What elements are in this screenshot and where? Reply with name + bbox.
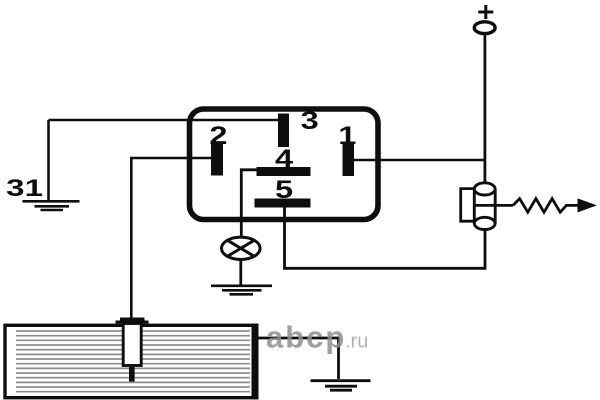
return spring xyxy=(513,199,579,213)
svg-text:3: 3 xyxy=(301,107,319,135)
relay K body xyxy=(190,109,379,220)
svg-text:5: 5 xyxy=(275,177,293,205)
wire pin 5 to actuator xyxy=(285,207,486,268)
svg-text:2: 2 xyxy=(209,122,227,150)
battery plus sign xyxy=(478,5,493,19)
tank hatching xyxy=(16,331,250,392)
wire tank to ground xyxy=(259,338,339,379)
actuator yoke bracket xyxy=(461,189,474,222)
pin 3 xyxy=(278,114,289,148)
svg-text:4: 4 xyxy=(275,145,293,173)
svg-text:.ru: .ru xyxy=(345,331,368,353)
wire lamp to ground xyxy=(239,260,242,285)
ground G3 xyxy=(311,381,371,391)
wire pin 2 to tank sender xyxy=(131,158,211,318)
svg-text:1: 1 xyxy=(338,122,356,150)
ground G1 xyxy=(23,201,80,210)
svg-text:abcp: abcp xyxy=(266,320,346,355)
wire 31 to pin 3 xyxy=(49,120,280,200)
wire pin 4 to lamp xyxy=(241,170,256,237)
ground G2 xyxy=(211,286,272,295)
pin 4 xyxy=(257,167,311,176)
pin 1 xyxy=(343,143,355,177)
actuator plunger wire xyxy=(475,204,514,207)
sender flange xyxy=(116,319,149,322)
sender body xyxy=(123,324,141,366)
pin 2 xyxy=(211,143,223,176)
fuel tank body xyxy=(5,325,257,397)
tank right wall xyxy=(252,324,259,400)
pin 5 xyxy=(255,199,311,208)
watermark abcp.ru xyxy=(266,320,368,355)
lamp H1 xyxy=(222,237,261,259)
sender tip xyxy=(129,367,135,382)
wire pin 1 to battery node xyxy=(354,159,485,162)
wire battery to actuator xyxy=(483,34,486,183)
svg-text:31: 31 xyxy=(6,175,43,202)
motion arrow xyxy=(578,198,598,212)
battery terminal xyxy=(474,22,495,34)
actuator solenoid body xyxy=(474,183,495,230)
